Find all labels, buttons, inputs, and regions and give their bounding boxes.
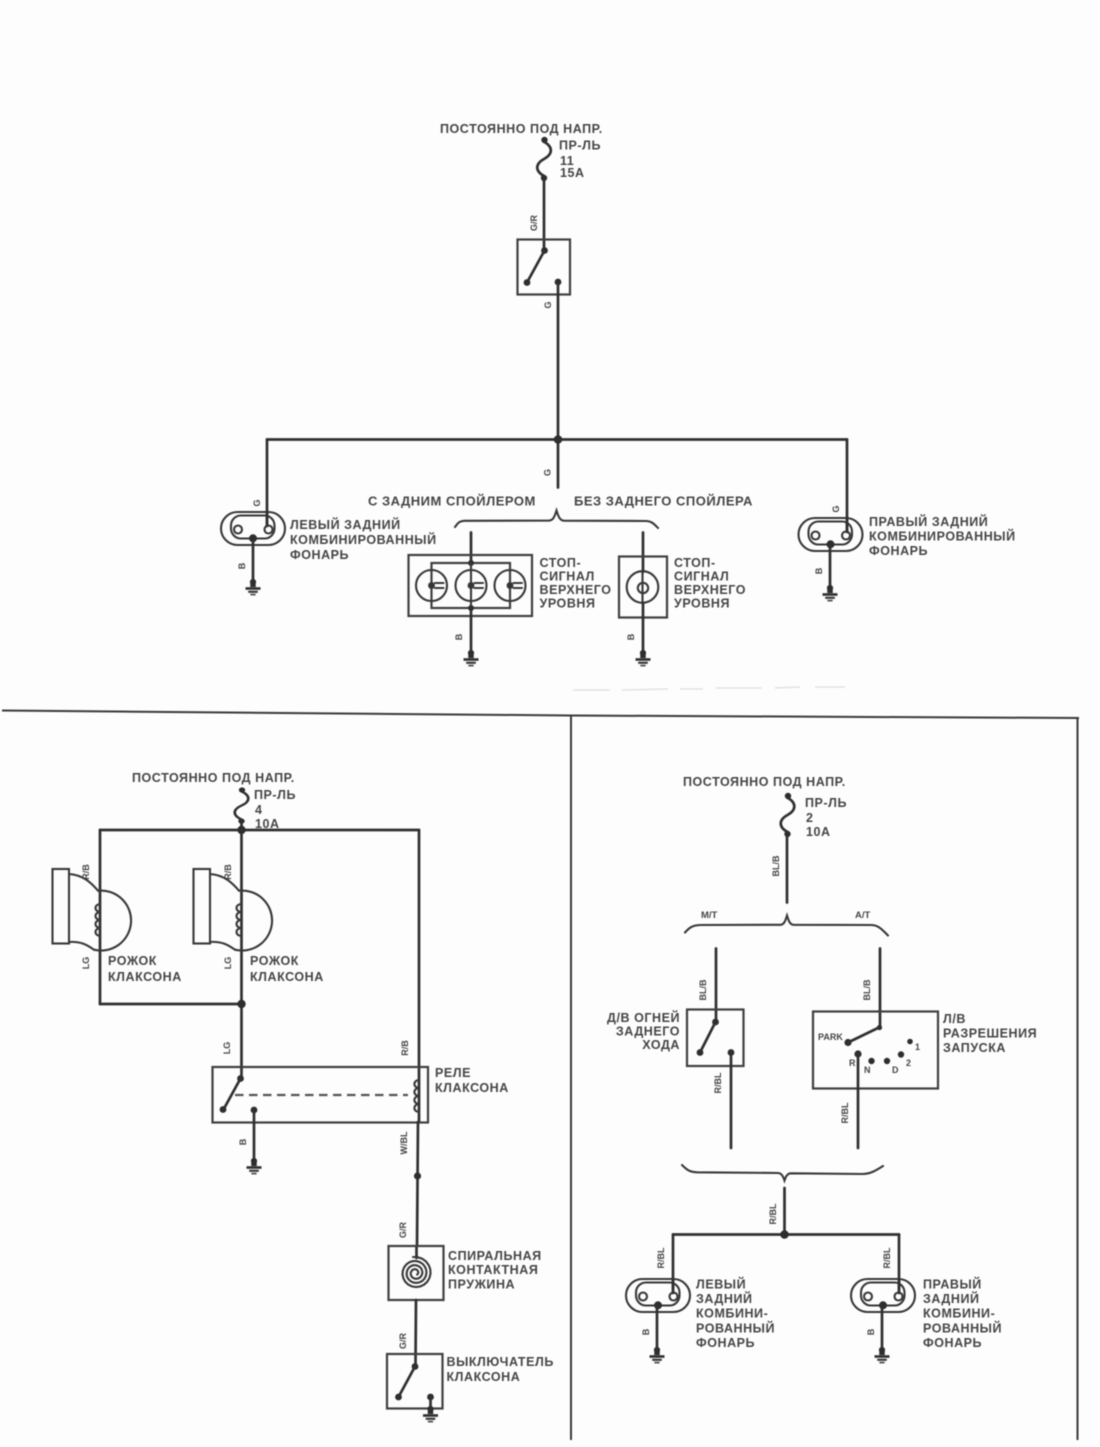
stop light switch box: [518, 240, 571, 295]
contact N: [868, 1058, 874, 1064]
fuse ПР-ЛЬ 2 10A: [781, 793, 795, 837]
fuse ПР-ЛЬ 4 10A: [235, 787, 249, 823]
right border: [1077, 718, 1079, 1440]
fuse ПР-ЛЬ 11 15A: [537, 137, 551, 181]
relay ground wire: [253, 1110, 256, 1160]
high mounted stop lamp (without spoiler): [619, 557, 667, 618]
contact 2: [898, 1051, 904, 1057]
relay switch contacts: [237, 1075, 244, 1082]
svg-text:ВЫКЛЮЧАТЕЛЬ: ВЫКЛЮЧАТЕЛЬ: [447, 1355, 554, 1369]
right drop: [898, 1235, 901, 1291]
svg-text:B: B: [238, 1138, 248, 1145]
horn switch box: [387, 1354, 443, 1409]
right rear combination lamp: [799, 518, 863, 551]
svg-text:РОЖОК: РОЖОК: [250, 954, 299, 968]
svg-text:КЛАКСОНА: КЛАКСОНА: [250, 970, 324, 984]
ground: [247, 1158, 262, 1174]
ground: [246, 579, 261, 595]
ground: [636, 650, 651, 666]
svg-text:B: B: [454, 633, 464, 640]
park/neutral position switch box: [813, 1012, 938, 1089]
option brace: [455, 511, 658, 529]
svg-text:СТОП-: СТОП-: [674, 556, 716, 570]
svg-text:G: G: [543, 469, 553, 476]
svg-text:КОМБИНИ-: КОМБИНИ-: [696, 1307, 768, 1321]
split brace M/T A/T: [685, 916, 888, 936]
svg-text:2: 2: [906, 1058, 911, 1068]
svg-text:ФОНАРЬ: ФОНАРЬ: [696, 1336, 755, 1350]
svg-text:ЛЕВЫЙ: ЛЕВЫЙ: [696, 1277, 746, 1292]
contact R: [854, 1050, 861, 1057]
svg-text:G/R: G/R: [529, 215, 539, 232]
svg-text:R/B: R/B: [400, 1040, 410, 1056]
horn 2: [194, 869, 273, 951]
svg-text:M/T: M/T: [701, 910, 718, 921]
svg-text:D: D: [892, 1065, 899, 1075]
high mounted stop lamp (with spoiler): [409, 555, 533, 616]
svg-text:ПРАВЫЙ: ПРАВЫЙ: [923, 1277, 982, 1292]
svg-text:БЕЗ ЗАДНЕГО СПОЙЛЕРА: БЕЗ ЗАДНЕГО СПОЙЛЕРА: [574, 494, 753, 509]
svg-text:BL/B: BL/B: [862, 979, 872, 1000]
svg-text:N: N: [864, 1065, 871, 1075]
svg-text:СИГНАЛ: СИГНАЛ: [540, 570, 595, 584]
svg-text:КОМБИНИ-: КОМБИНИ-: [923, 1307, 995, 1321]
wire R contact down: [857, 1054, 860, 1148]
svg-text:B: B: [626, 633, 636, 640]
connector dot: [414, 1172, 421, 1179]
svg-text:Д/В ОГНЕЙ: Д/В ОГНЕЙ: [607, 1010, 680, 1025]
svg-text:G: G: [831, 505, 841, 512]
svg-text:ЗАДНИЙ: ЗАДНИЙ: [696, 1291, 753, 1306]
horn 1: [53, 869, 132, 951]
svg-text:B: B: [641, 1328, 651, 1335]
bus: [673, 1233, 899, 1236]
bus line: [267, 438, 847, 441]
wire to ground: [881, 1305, 884, 1349]
svg-text:КОМБИНИРОВАННЫЙ: КОМБИНИРОВАННЫЙ: [290, 532, 437, 547]
relay dashed link: [235, 1094, 408, 1096]
svg-text:УРОВНЯ: УРОВНЯ: [540, 597, 596, 611]
merge brace: [682, 1165, 883, 1181]
wire switch down: [730, 1053, 733, 1149]
left drop wire: [266, 440, 269, 525]
horn relay box: [213, 1067, 429, 1123]
svg-text:R/BL: R/BL: [768, 1203, 778, 1224]
svg-text:ПР-ЛЬ: ПР-ЛЬ: [559, 139, 601, 153]
wire fuse to switch: [543, 180, 546, 250]
svg-text:КОМБИНИРОВАННЫЙ: КОМБИНИРОВАННЫЙ: [869, 529, 1016, 544]
contact 1: [907, 1039, 913, 1045]
center stub to brace: [557, 440, 560, 488]
svg-text:СИГНАЛ: СИГНАЛ: [674, 570, 729, 584]
right branch wire to relay coil: [418, 830, 421, 1122]
svg-text:ПР-ЛЬ: ПР-ЛЬ: [805, 796, 847, 810]
wire brace to hmsl-2: [642, 533, 645, 573]
svg-text:ПОСТОЯННО ПОД НАПР.: ПОСТОЯННО ПОД НАПР.: [440, 122, 603, 136]
svg-text:G: G: [543, 301, 553, 308]
svg-text:G/R: G/R: [398, 1333, 408, 1350]
wire to ground: [656, 1305, 659, 1349]
ground: [464, 650, 479, 666]
svg-text:W/BL: W/BL: [399, 1131, 409, 1154]
svg-text:1: 1: [915, 1042, 920, 1052]
svg-text:B: B: [814, 567, 824, 574]
svg-text:LG: LG: [81, 957, 91, 970]
right drop wire: [846, 440, 849, 531]
svg-text:R/BL: R/BL: [840, 1102, 850, 1123]
svg-text:УРОВНЯ: УРОВНЯ: [674, 597, 730, 611]
A/T wire: [879, 949, 882, 1028]
svg-text:LG: LG: [223, 957, 233, 970]
svg-text:ПРУЖИНА: ПРУЖИНА: [448, 1278, 515, 1292]
svg-text:R/BL: R/BL: [656, 1247, 666, 1268]
left drop: [672, 1235, 675, 1291]
svg-text:B: B: [866, 1328, 876, 1335]
svg-text:СПИРАЛЬНАЯ: СПИРАЛЬНАЯ: [448, 1249, 542, 1263]
svg-text:PARK: PARK: [818, 1032, 843, 1042]
scan artifact smudge: [573, 687, 845, 690]
svg-text:15А: 15А: [560, 166, 585, 180]
svg-text:ФОНАРЬ: ФОНАРЬ: [290, 548, 349, 562]
svg-text:ЗАПУСКА: ЗАПУСКА: [943, 1041, 1006, 1055]
bottom bus: [100, 1003, 242, 1006]
ground: [823, 585, 838, 601]
svg-text:РАЗРЕШЕНИЯ: РАЗРЕШЕНИЯ: [943, 1027, 1037, 1041]
svg-text:СТОП-: СТОП-: [540, 556, 582, 570]
relay coil: [414, 1080, 419, 1112]
svg-text:G/R: G/R: [398, 1222, 408, 1239]
ground: [650, 1347, 665, 1363]
wire to ground: [642, 603, 645, 652]
M/T wire: [715, 949, 718, 1023]
svg-text:ПРАВЫЙ ЗАДНИЙ: ПРАВЫЙ ЗАДНИЙ: [869, 514, 988, 529]
left rear combination lamp: [626, 1279, 690, 1312]
svg-text:ФОНАРЬ: ФОНАРЬ: [869, 544, 928, 558]
svg-text:LG: LG: [222, 1042, 232, 1055]
svg-text:ПОСТОЯННО ПОД НАПР.: ПОСТОЯННО ПОД НАПР.: [683, 775, 846, 789]
horizontal divider: [2, 711, 1079, 719]
wire lamp to ground: [829, 545, 832, 587]
wire brace to hmsl-1: [470, 533, 473, 564]
switch contacts: [412, 1363, 419, 1370]
wire relay to spiral spring: [417, 1122, 418, 1246]
svg-text:ПР-ЛЬ: ПР-ЛЬ: [254, 788, 296, 802]
wire fuse to split: [786, 836, 789, 903]
svg-text:10А: 10А: [806, 825, 831, 839]
spiral contact spring box: [389, 1246, 444, 1300]
svg-text:ЗАДНЕГО: ЗАДНЕГО: [616, 1025, 680, 1039]
svg-text:Л/В: Л/В: [943, 1012, 966, 1026]
top bus: [100, 829, 419, 832]
svg-text:A/T: A/T: [855, 910, 871, 921]
contact D: [884, 1058, 890, 1064]
backup light switch box: [687, 1010, 744, 1067]
svg-text:BL/B: BL/B: [698, 979, 708, 1000]
svg-text:ПОСТОЯННО ПОД НАПР.: ПОСТОЯННО ПОД НАПР.: [132, 771, 295, 785]
svg-text:4: 4: [255, 803, 263, 817]
svg-text:РОВАННЫЙ: РОВАННЫЙ: [696, 1320, 775, 1335]
svg-text:2: 2: [806, 811, 814, 825]
svg-text:ФОНАРЬ: ФОНАРЬ: [923, 1336, 982, 1350]
wire to ground: [470, 608, 473, 652]
svg-text:ЗАДНИЙ: ЗАДНИЙ: [923, 1291, 980, 1306]
svg-text:B: B: [237, 562, 247, 569]
switch contacts: [541, 247, 548, 254]
vertical divider: [570, 716, 572, 1441]
center horn branch wire: [240, 830, 243, 1078]
svg-text:ЛЕВЫЙ ЗАДНИЙ: ЛЕВЫЙ ЗАДНИЙ: [290, 517, 401, 532]
svg-text:РОВАННЫЙ: РОВАННЫЙ: [923, 1320, 1002, 1335]
svg-text:С ЗАДНИМ СПОЙЛЕРОМ: С ЗАДНИМ СПОЙЛЕРОМ: [368, 494, 536, 509]
left horn branch wire: [99, 830, 102, 1004]
svg-text:РОЖОК: РОЖОК: [108, 954, 157, 968]
wire spring to horn switch: [414, 1300, 417, 1366]
svg-text:R/BL: R/BL: [713, 1072, 723, 1093]
svg-text:КОНТАКТНАЯ: КОНТАКТНАЯ: [448, 1263, 538, 1277]
wire brace to bus: [783, 1188, 786, 1235]
svg-text:ХОДА: ХОДА: [642, 1038, 680, 1052]
svg-text:ВЕРХНЕГО: ВЕРХНЕГО: [674, 583, 746, 597]
svg-text:РЕЛЕ: РЕЛЕ: [435, 1066, 471, 1080]
junction: [554, 435, 563, 444]
svg-text:КЛАКСОНА: КЛАКСОНА: [447, 1370, 521, 1384]
wire switch to bus: [557, 283, 560, 440]
right rear combination lamp: [851, 1279, 915, 1312]
svg-text:G: G: [252, 499, 262, 506]
svg-text:КЛАКСОНА: КЛАКСОНА: [108, 970, 182, 984]
svg-text:R/BL: R/BL: [882, 1247, 892, 1268]
left rear combination lamp: [221, 512, 285, 545]
svg-text:BL/B: BL/B: [771, 855, 781, 876]
ground: [875, 1347, 890, 1363]
svg-text:R: R: [849, 1058, 856, 1068]
svg-text:КЛАКСОНА: КЛАКСОНА: [435, 1081, 509, 1095]
ground: [423, 1406, 438, 1422]
wire lamp to ground: [252, 540, 255, 581]
svg-text:ВЕРХНЕГО: ВЕРХНЕГО: [540, 583, 612, 597]
